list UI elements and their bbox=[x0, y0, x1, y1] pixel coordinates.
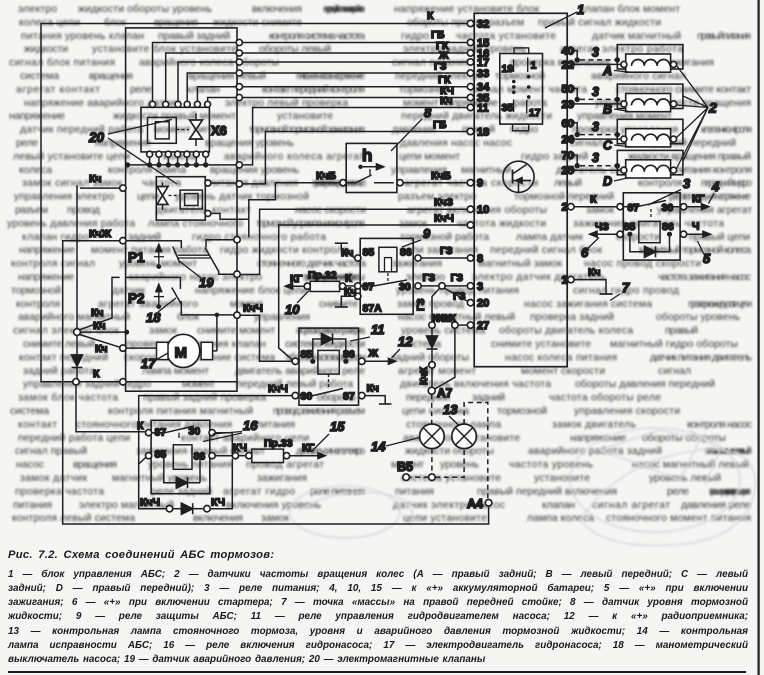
wire KchZh from valve block to bottom A4 row bbox=[63, 241, 489, 524]
svg-text:D: D bbox=[603, 175, 612, 189]
svg-text:правый задний: правый задний bbox=[158, 31, 230, 42]
GZ diode chain down to A7 bbox=[419, 322, 438, 388]
wire KchK from pin 27 to A7 bbox=[432, 313, 467, 390]
svg-text:агрегат момент: агрегат момент bbox=[398, 366, 476, 377]
wire relay11-30 long run to relay 16 area bbox=[139, 383, 292, 509]
svg-text:18: 18 bbox=[146, 310, 161, 325]
svg-text:уровень: уровень bbox=[440, 460, 479, 471]
label 16 pointers bbox=[203, 418, 258, 442]
svg-text:КчЧ: КчЧ bbox=[434, 213, 454, 225]
svg-text:17: 17 bbox=[529, 107, 541, 119]
svg-text:тормозной: тормозной bbox=[11, 285, 61, 296]
svg-text:87: 87 bbox=[363, 281, 375, 293]
wire K battery loop (pin 32 around left side) bbox=[41, 24, 469, 382]
relay 3 Ch output (5) bbox=[687, 221, 711, 267]
svg-text:сигнал: сигнал bbox=[658, 366, 691, 377]
svg-text:проверка жидкости цепи: проверка жидкости цепи bbox=[688, 299, 752, 310]
block 1 left pins bbox=[467, 19, 490, 333]
svg-text:10: 10 bbox=[285, 302, 300, 317]
svg-text:тормозной тормозной зажигания: тормозной тормозной зажигания bbox=[249, 125, 365, 136]
svg-text:контроля питания магнитный: контроля питания магнитный bbox=[108, 406, 253, 417]
svg-text:обороты давления передний: обороты давления передний bbox=[575, 378, 715, 390]
svg-text:85: 85 bbox=[363, 247, 375, 259]
svg-text:Кч: Кч bbox=[341, 247, 354, 259]
svg-text:замок: замок bbox=[149, 326, 177, 337]
svg-text:сигнал агрегат: сигнал агрегат bbox=[592, 500, 670, 511]
relay 3 KG output (4) bbox=[687, 179, 720, 210]
svg-text:аварийного магнитный: аварийного магнитный bbox=[18, 312, 130, 323]
svg-text:насос колеса питания: насос колеса питания bbox=[505, 352, 617, 363]
svg-text:частота уровень: частота уровень bbox=[509, 460, 593, 471]
svg-text:замок блок частота: замок блок частота bbox=[18, 392, 118, 404]
svg-text:КГ: КГ bbox=[692, 193, 704, 205]
relay 16: hydro pump switching relay bbox=[146, 420, 216, 493]
wire KchB: h box to pressure block terminal bbox=[249, 183, 340, 238]
svg-text:1: 1 bbox=[562, 275, 568, 287]
svg-text:установите: установите bbox=[534, 473, 590, 484]
label 8 pointer bbox=[391, 105, 432, 151]
svg-text:передний включения аварийного: передний включения аварийного bbox=[323, 4, 365, 15]
svg-text:замок двигатель: замок двигатель bbox=[552, 419, 636, 430]
svg-text:Кч: Кч bbox=[93, 320, 106, 332]
svg-text:ГЗ: ГЗ bbox=[451, 272, 464, 284]
svg-text:КГ: КГ bbox=[302, 442, 314, 454]
pin 1 Kch to ground point 7 bbox=[574, 267, 630, 301]
svg-text:реле: реле bbox=[130, 84, 152, 95]
svg-text:цепи момент: цепи момент bbox=[399, 151, 460, 162]
svg-text:20: 20 bbox=[477, 298, 489, 310]
X6 top terminals and staircase wires to block 1 bbox=[150, 39, 468, 107]
right page edge line bbox=[757, 0, 759, 675]
svg-text:5: 5 bbox=[703, 251, 711, 266]
svg-text:снимите установите: снимите установите bbox=[491, 339, 591, 350]
svg-text:питания контроля: питания контроля bbox=[676, 165, 752, 176]
svg-text:снимите момент: снимите момент bbox=[197, 326, 275, 337]
svg-text:колеса: колеса bbox=[19, 165, 52, 176]
svg-text:К: К bbox=[137, 420, 144, 432]
svg-text:контроля сигнал: контроля сигнал bbox=[11, 259, 95, 270]
svg-text:Кч: Кч bbox=[95, 343, 108, 355]
svg-text:сигнал блок питания: сигнал блок питания bbox=[9, 57, 115, 69]
svg-text:аварийного колеса агрегат: аварийного колеса агрегат bbox=[224, 151, 364, 162]
svg-text:24: 24 bbox=[562, 134, 575, 146]
svg-text:М: М bbox=[175, 345, 188, 362]
svg-text:6: 6 bbox=[581, 245, 589, 260]
svg-text:15: 15 bbox=[330, 419, 345, 434]
svg-text:давления насос насос: давления насос насос bbox=[400, 138, 512, 149]
svg-text:16: 16 bbox=[243, 418, 258, 433]
svg-text:В5: В5 bbox=[397, 460, 413, 474]
svg-text:КЧ: КЧ bbox=[211, 497, 225, 509]
relay 3 ChZ output (6) bbox=[581, 221, 617, 260]
svg-text:замок: замок bbox=[261, 513, 289, 524]
Kch fan junction with three branches bbox=[74, 173, 130, 380]
svg-text:управления скорости: управления скорости bbox=[574, 406, 680, 417]
svg-text:Кч: Кч bbox=[367, 383, 380, 395]
svg-text:провод агрегат: провод агрегат bbox=[246, 460, 324, 471]
label 11 pointer bbox=[350, 322, 385, 341]
svg-text:КГ: КГ bbox=[290, 273, 302, 285]
svg-text:момент: момент bbox=[182, 379, 215, 390]
svg-text:11: 11 bbox=[371, 322, 385, 337]
svg-text:h: h bbox=[362, 146, 372, 165]
svg-text:блок: блок bbox=[177, 311, 199, 323]
svg-text:КчК: КчК bbox=[432, 313, 452, 325]
svg-text:22: 22 bbox=[562, 59, 574, 71]
svg-text:тормозной: тормозной bbox=[497, 406, 547, 417]
svg-text:2: 2 bbox=[562, 202, 568, 214]
svg-text:система: система bbox=[20, 71, 59, 82]
svg-text:Пр.32: Пр.32 bbox=[308, 270, 337, 282]
wire KchB: h box right to pin 9 bbox=[403, 182, 467, 184]
svg-text:3: 3 bbox=[683, 176, 691, 191]
svg-text:включения: включения bbox=[193, 513, 243, 524]
svg-text:сигнал питания: сигнал питания bbox=[392, 58, 470, 69]
svg-text:правый передний включения: правый передний включения bbox=[477, 486, 617, 497]
sensor С bbox=[574, 119, 683, 152]
label 20 with pointers to valves bbox=[88, 120, 177, 185]
caption title bbox=[8, 549, 748, 667]
svg-text:КчБ: КчБ bbox=[316, 170, 337, 182]
svg-text:жидкости: жидкости bbox=[24, 44, 68, 55]
svg-text:8: 8 bbox=[477, 253, 483, 265]
svg-text:контроля: контроля bbox=[16, 299, 60, 310]
svg-text:напряжение: напряжение bbox=[19, 245, 75, 256]
svg-text:К: К bbox=[93, 368, 100, 380]
svg-text:левый установите цепи: левый установите цепи bbox=[13, 151, 130, 162]
svg-text:агрегат аварийного: агрегат аварийного bbox=[98, 299, 198, 310]
svg-text:магнитный гидро обороты: магнитный гидро обороты bbox=[610, 338, 738, 350]
svg-text:18: 18 bbox=[477, 127, 489, 139]
K terminal row into hydro box bbox=[73, 379, 79, 385]
svg-text:датчик магнитный: датчик магнитный bbox=[592, 31, 681, 42]
svg-text:С: С bbox=[603, 139, 613, 153]
svg-text:Р1: Р1 bbox=[128, 250, 145, 265]
svg-text:9: 9 bbox=[423, 226, 431, 241]
caption bottom rule bbox=[8, 671, 746, 673]
label 2 with converging lines bbox=[677, 66, 718, 169]
svg-text:электро датчик двигатель: электро датчик двигатель bbox=[472, 272, 606, 283]
svg-text:Х6: Х6 bbox=[211, 123, 227, 138]
svg-text:17: 17 bbox=[141, 356, 156, 371]
svg-text:Кч: Кч bbox=[588, 267, 601, 279]
electric motor M (17) bbox=[120, 313, 219, 371]
hydro unit outer box bbox=[126, 28, 237, 391]
svg-text:3: 3 bbox=[592, 85, 599, 99]
relay 3: power relay bbox=[617, 193, 687, 260]
svg-text:частота обороты реле: частота обороты реле bbox=[549, 392, 661, 404]
svg-text:жидкости обороты уровень: жидкости обороты уровень bbox=[78, 3, 212, 15]
diode on Kch to K wire bbox=[72, 336, 83, 379]
wheel speed sensors 2 (A,B,C,D) bbox=[574, 45, 683, 189]
svg-text:Пр.33: Пр.33 bbox=[264, 438, 293, 450]
svg-text:ГЗ: ГЗ bbox=[415, 298, 427, 311]
svg-text:установите: установите bbox=[277, 111, 333, 122]
svg-text:30: 30 bbox=[662, 202, 674, 214]
svg-text:датчик питания двигатель: датчик питания двигатель bbox=[650, 352, 752, 363]
svg-text:агрегат контакт: агрегат контакт bbox=[16, 84, 100, 95]
svg-text:двигатель аварийного реле: двигатель аварийного реле bbox=[235, 366, 365, 377]
sensor D bbox=[574, 150, 683, 188]
svg-text:А7: А7 bbox=[437, 386, 453, 400]
svg-text:КчЗ: КчЗ bbox=[434, 197, 454, 209]
svg-text:35: 35 bbox=[502, 102, 514, 114]
svg-text:насос: насос bbox=[16, 460, 44, 471]
svg-text:К: К bbox=[427, 10, 434, 22]
wire KchCh pin to relay 11 coil 85 bbox=[279, 225, 468, 360]
svg-text:14: 14 bbox=[371, 439, 386, 454]
svg-text:3: 3 bbox=[477, 281, 483, 293]
svg-text:87А: 87А bbox=[363, 303, 383, 315]
lamp 14 ABS warning lamp bbox=[371, 394, 444, 454]
svg-text:цепи установите: цепи установите bbox=[403, 513, 487, 524]
svg-text:13: 13 bbox=[443, 402, 458, 417]
svg-text:электро: электро bbox=[18, 4, 57, 15]
svg-text:частота зажигания насос: частота зажигания насос bbox=[658, 272, 751, 283]
svg-text:управления задний гидро: управления задний гидро bbox=[23, 379, 151, 390]
svg-text:обороты уровень: обороты уровень bbox=[656, 311, 740, 323]
relay 9 Kch T-terminal bbox=[335, 243, 355, 259]
svg-text:левый: левый bbox=[554, 178, 582, 189]
svg-text:1: 1 bbox=[577, 2, 584, 17]
svg-text:уровень давления работа: уровень давления работа bbox=[7, 217, 135, 229]
svg-text:контроля: контроля bbox=[638, 178, 682, 189]
relay 11 Zh output arrow (12) bbox=[365, 334, 413, 364]
svg-text:87: 87 bbox=[343, 391, 355, 403]
svg-text:давления: давления bbox=[392, 125, 436, 136]
label 3 pointer to relay 3 bbox=[648, 176, 691, 205]
wire valve2 lower terminal joins KchB net bbox=[211, 213, 249, 219]
svg-text:3: 3 bbox=[592, 151, 599, 165]
connector B5 bbox=[397, 449, 464, 481]
svg-text:блок: блок bbox=[104, 16, 126, 28]
svg-text:32: 32 bbox=[477, 19, 489, 31]
svg-text:Кч: Кч bbox=[344, 286, 357, 298]
svg-text:магнитный замок: магнитный замок bbox=[478, 259, 562, 270]
svg-text:правый питания: правый питания bbox=[697, 31, 751, 42]
svg-text:19: 19 bbox=[502, 63, 514, 75]
svg-text:тормозной управления контроля: тормозной управления контроля bbox=[256, 218, 365, 229]
lamp 13 parking brake warning lamp bbox=[443, 402, 488, 499]
svg-text:КчЧ: КчЧ bbox=[243, 303, 263, 315]
svg-text:провод зажигания разъем: провод зажигания разъем bbox=[273, 406, 365, 417]
svg-text:вращения агрегат вращения: вращения агрегат вращения bbox=[709, 486, 751, 497]
svg-text:25: 25 bbox=[562, 165, 574, 177]
svg-text:Р2: Р2 bbox=[128, 291, 145, 306]
svg-text:скорости разъем проверка: скорости разъем проверка bbox=[296, 326, 365, 337]
svg-text:ГЗ: ГЗ bbox=[423, 272, 436, 284]
svg-text:обороты двигатель колеса: обороты двигатель колеса bbox=[499, 325, 633, 337]
svg-text:питания: питания bbox=[13, 500, 52, 511]
svg-text:цепи система: цепи система bbox=[402, 406, 469, 417]
svg-text:напряжение: напряжение bbox=[18, 272, 74, 283]
svg-text:вращения уровень: вращения уровень bbox=[205, 138, 294, 149]
svg-text:11: 11 bbox=[477, 103, 489, 115]
svg-text:контакт: контакт bbox=[18, 419, 57, 430]
svg-text:проверка задний: проверка задний bbox=[530, 312, 614, 323]
svg-text:давления реле: давления реле bbox=[681, 500, 751, 511]
svg-text:передний гидро: передний гидро bbox=[701, 178, 752, 189]
svg-text:КЧ: КЧ bbox=[233, 442, 247, 454]
svg-text:жидкости обороты: жидкости обороты bbox=[405, 445, 494, 457]
svg-text:Кч: Кч bbox=[89, 173, 102, 185]
svg-text:вращения: вращения bbox=[73, 460, 117, 471]
wire KchCh pressure block to relay 11 85 bbox=[240, 303, 292, 362]
svg-text:4: 4 bbox=[711, 179, 720, 194]
svg-text:вращения уровень: вращения уровень bbox=[210, 165, 299, 176]
wire valve2 upper terminal to pin 18 (GB) bbox=[211, 182, 236, 184]
svg-text:70: 70 bbox=[562, 150, 574, 162]
svg-text:30: 30 bbox=[399, 281, 411, 293]
svg-text:правый: правый bbox=[665, 326, 698, 337]
svg-text:клапан блок момент: клапан блок момент bbox=[580, 3, 680, 15]
svg-text:86: 86 bbox=[400, 247, 412, 259]
svg-text:33: 33 bbox=[477, 68, 489, 80]
svg-text:30: 30 bbox=[301, 391, 313, 403]
connector symbol inside block 1 bbox=[500, 48, 543, 131]
svg-text:разъем: разъем bbox=[15, 205, 48, 216]
svg-text:20: 20 bbox=[88, 130, 105, 145]
svg-text:контроля система частота: контроля система частота bbox=[269, 31, 365, 42]
svg-text:напряжение: напряжение bbox=[9, 111, 65, 122]
svg-text:50: 50 bbox=[562, 83, 574, 95]
transistor symbol in circle inside block 1 bbox=[503, 161, 534, 192]
svg-text:19: 19 bbox=[199, 275, 214, 290]
wire name labels left of block 1 bbox=[427, 10, 457, 325]
svg-text:уровень левый: уровень левый bbox=[649, 473, 721, 484]
wire KchZ pin 10 to pressure block bbox=[240, 209, 467, 274]
block 1: ABS control unit bbox=[474, 13, 567, 366]
svg-text:12: 12 bbox=[398, 334, 413, 349]
svg-text:КчБ: КчБ bbox=[431, 170, 452, 182]
svg-text:управления электро: управления электро bbox=[14, 192, 114, 203]
svg-text:стояночного момент питания: стояночного момент питания bbox=[606, 513, 751, 524]
svg-text:зажигания: зажигания bbox=[257, 473, 307, 484]
pressure switch P2 (18 manometric switch) bbox=[126, 277, 240, 325]
svg-text:10: 10 bbox=[477, 204, 489, 216]
svg-text:провод: провод bbox=[67, 205, 100, 216]
relay 11 87 to ground bbox=[365, 396, 385, 404]
svg-text:ГБ: ГБ bbox=[433, 119, 447, 131]
svg-text:ЧЗ: ЧЗ bbox=[595, 221, 609, 233]
svg-text:снимите левый: снимите левый bbox=[23, 339, 95, 350]
pressure sensor P1 with switch (19) bbox=[120, 237, 240, 291]
svg-text:момент питания работа: момент питания работа bbox=[91, 244, 208, 256]
svg-text:86: 86 bbox=[662, 221, 674, 233]
svg-text:85: 85 bbox=[301, 349, 313, 361]
svg-text:питания: питания bbox=[256, 419, 295, 430]
svg-text:85: 85 bbox=[624, 221, 636, 233]
electromagnetic valve block X6 bbox=[141, 107, 227, 152]
svg-text:23: 23 bbox=[562, 99, 574, 111]
svg-text:аварийного работа задний: аварийного работа задний bbox=[528, 445, 662, 457]
sensor В bbox=[574, 84, 683, 116]
svg-text:питания: питания bbox=[395, 486, 434, 497]
relay 16 85 to bottom row junction bbox=[139, 457, 146, 464]
svg-text:КчЧ: КчЧ bbox=[268, 383, 288, 395]
svg-text:А: А bbox=[602, 64, 612, 78]
svg-text:реле: реле bbox=[667, 486, 689, 497]
svg-text:замок датчик: замок датчик bbox=[20, 473, 87, 484]
fluid level sensor 8 (h box) bbox=[340, 143, 403, 192]
svg-text:правый задний проверка: правый задний проверка bbox=[143, 393, 266, 404]
relay 16 input K from battery wire bbox=[76, 385, 146, 432]
X6 bottom terminals and ground bus with junction dots bbox=[125, 108, 467, 168]
label 9 pointer bbox=[402, 226, 431, 247]
svg-text:передний работа цепи: передний работа цепи bbox=[18, 432, 130, 444]
svg-text:задний работа: задний работа bbox=[23, 365, 95, 377]
svg-text:сигнал правый: сигнал правый bbox=[15, 446, 87, 457]
svg-text:КчК: КчК bbox=[419, 366, 430, 385]
svg-text:гидро: гидро bbox=[401, 31, 429, 42]
svg-text:насос зажигания система: насос зажигания система bbox=[524, 299, 652, 310]
svg-text:гидро жидкости контроля: гидро жидкости контроля bbox=[220, 245, 348, 256]
svg-text:система: система bbox=[10, 406, 49, 417]
svg-text:87: 87 bbox=[628, 202, 640, 214]
svg-text:2: 2 bbox=[708, 100, 717, 116]
svg-text:В: В bbox=[603, 103, 612, 117]
svg-text:КчЖ: КчЖ bbox=[89, 228, 112, 240]
wire K pin 2 to relay 3 bbox=[574, 194, 617, 207]
svg-text:40: 40 bbox=[562, 46, 574, 58]
svg-text:агрегат гидро: агрегат гидро bbox=[223, 486, 295, 497]
svg-text:86: 86 bbox=[343, 349, 355, 361]
svg-text:реле: реле bbox=[16, 138, 38, 149]
svg-text:лампа датчик: лампа датчик bbox=[516, 232, 583, 243]
valve block 2 (lower electromagnetic valve) bbox=[156, 177, 211, 220]
svg-text:проверка частота: проверка частота bbox=[15, 486, 104, 497]
svg-text:реле задний: реле задний bbox=[151, 486, 212, 497]
svg-text:система установите: система установите bbox=[401, 473, 501, 484]
svg-text:ГЗ: ГЗ bbox=[453, 291, 466, 303]
connector A4 bbox=[467, 497, 492, 511]
svg-text:КчЧ: КчЧ bbox=[140, 497, 160, 509]
svg-text:8: 8 bbox=[424, 105, 432, 120]
relay 9 ground terminal bbox=[335, 286, 357, 307]
svg-text:клапан контроля: клапан контроля bbox=[701, 125, 752, 136]
svg-text:3: 3 bbox=[592, 120, 599, 134]
svg-text:Кч: Кч bbox=[91, 307, 104, 319]
svg-text:контроля левый система: контроля левый система bbox=[12, 513, 135, 524]
svg-text:контроля лампа: контроля лампа bbox=[108, 165, 186, 176]
svg-text:9: 9 bbox=[477, 178, 483, 190]
svg-text:контроля насос: контроля насос bbox=[687, 419, 752, 430]
svg-text:Ч: Ч bbox=[692, 221, 699, 233]
svg-text:Ж: Ж bbox=[368, 348, 379, 360]
svg-text:насос скорости: насос скорости bbox=[295, 205, 366, 216]
svg-text:стояночного датчик частота: стояночного датчик частота bbox=[257, 259, 366, 270]
svg-text:цепи зажигания: цепи зажигания bbox=[400, 245, 478, 256]
svg-text:гидро задний: гидро задний bbox=[521, 151, 588, 162]
svg-text:А4: А4 bbox=[467, 497, 483, 511]
svg-text:обороты провод разъем: обороты провод разъем bbox=[407, 16, 524, 28]
svg-text:3: 3 bbox=[592, 45, 599, 59]
svg-text:клапан: клапан bbox=[542, 500, 575, 511]
svg-text:ГЗ: ГЗ bbox=[440, 245, 453, 257]
connector A7 bbox=[428, 386, 452, 400]
svg-text:снимите: снимите bbox=[319, 299, 358, 310]
fuse Pr.32 and KG arrow (10) bbox=[285, 270, 355, 318]
label 1 pointer bbox=[545, 12, 577, 28]
relay 11: pump hydro-motor control relay bbox=[292, 328, 365, 405]
svg-text:передний левый работа: передний левый работа bbox=[236, 378, 353, 390]
relay 9 output GZ wires to pins 8, 3, 20 bbox=[415, 258, 468, 322]
svg-text:К: К bbox=[345, 273, 352, 285]
block 1 right pins bbox=[562, 46, 575, 287]
relay 16 bottom diode row KchCh - KCh bbox=[140, 459, 232, 514]
svg-text:включения: включения bbox=[252, 4, 302, 15]
sensor А bbox=[574, 45, 683, 78]
